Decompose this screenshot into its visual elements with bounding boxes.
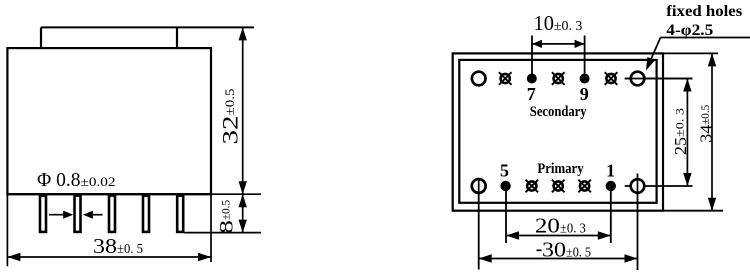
svg-text:30±0. 5: 30±0. 5 <box>542 238 591 262</box>
svg-text:1: 1 <box>606 161 615 181</box>
svg-text:7: 7 <box>527 84 536 104</box>
svg-text:Φ 0.8±0.02: Φ 0.8±0.02 <box>37 169 116 191</box>
svg-text:38±0. 5: 38±0. 5 <box>93 234 143 258</box>
svg-text:fixed holes: fixed holes <box>666 3 742 20</box>
svg-text:32±0.5: 32±0.5 <box>218 89 243 145</box>
svg-text:20±0. 3: 20±0. 3 <box>535 214 586 238</box>
svg-text:Primary: Primary <box>537 161 584 177</box>
svg-text:8±0.5: 8±0.5 <box>218 200 238 234</box>
svg-text:5: 5 <box>500 161 509 181</box>
svg-text:10±0. 3: 10±0. 3 <box>534 11 583 35</box>
svg-text:9: 9 <box>580 84 589 104</box>
svg-text:Secondary: Secondary <box>530 104 587 120</box>
svg-text:4-φ2.5: 4-φ2.5 <box>666 22 713 39</box>
